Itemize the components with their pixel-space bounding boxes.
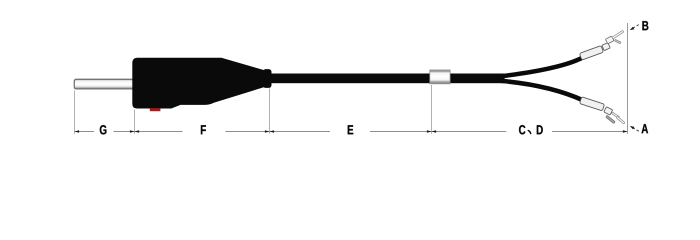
bare wire strands lower	[606, 115, 616, 123]
label C、D	[519, 125, 525, 134]
ferrule (metal sleeve on cable)	[430, 70, 450, 84]
extension line at pin start	[74, 91, 76, 134]
leader arrow A	[632, 127, 639, 131]
crimp collar upper	[602, 43, 610, 51]
extension line at cable start	[269, 89, 271, 134]
label B	[642, 21, 648, 30]
crimp collar lower	[604, 107, 613, 115]
extension line at wire tips (A/B)	[627, 23, 629, 134]
connector body (molded plug, section F)	[132, 58, 264, 109]
bare wire strands upper	[612, 30, 624, 39]
terminal sleeve upper (crimp at B)	[579, 46, 603, 60]
strain relief tip of connector	[263, 69, 272, 88]
dimension line C,D	[432, 131, 507, 133]
dimension line G	[75, 131, 95, 133]
pin (plug tip, section G)	[74, 79, 133, 89]
red tag on connector body	[150, 109, 161, 112]
label A	[642, 124, 649, 133]
terminal sleeve lower (crimp at A)	[580, 97, 605, 111]
extension line at body start	[134, 110, 136, 134]
label E	[348, 125, 353, 134]
extension line at ferrule	[431, 85, 433, 134]
cable (section E)	[271, 74, 431, 84]
wire upper (conductor to B)	[500, 58, 583, 77]
wire lower (conductor to A)	[500, 81, 583, 101]
cable between ferrule and split	[450, 74, 505, 84]
leader arrow B	[632, 25, 639, 29]
dimension line E	[270, 131, 331, 133]
label F	[201, 125, 206, 134]
dimension line F	[135, 131, 183, 133]
label G	[100, 125, 107, 134]
